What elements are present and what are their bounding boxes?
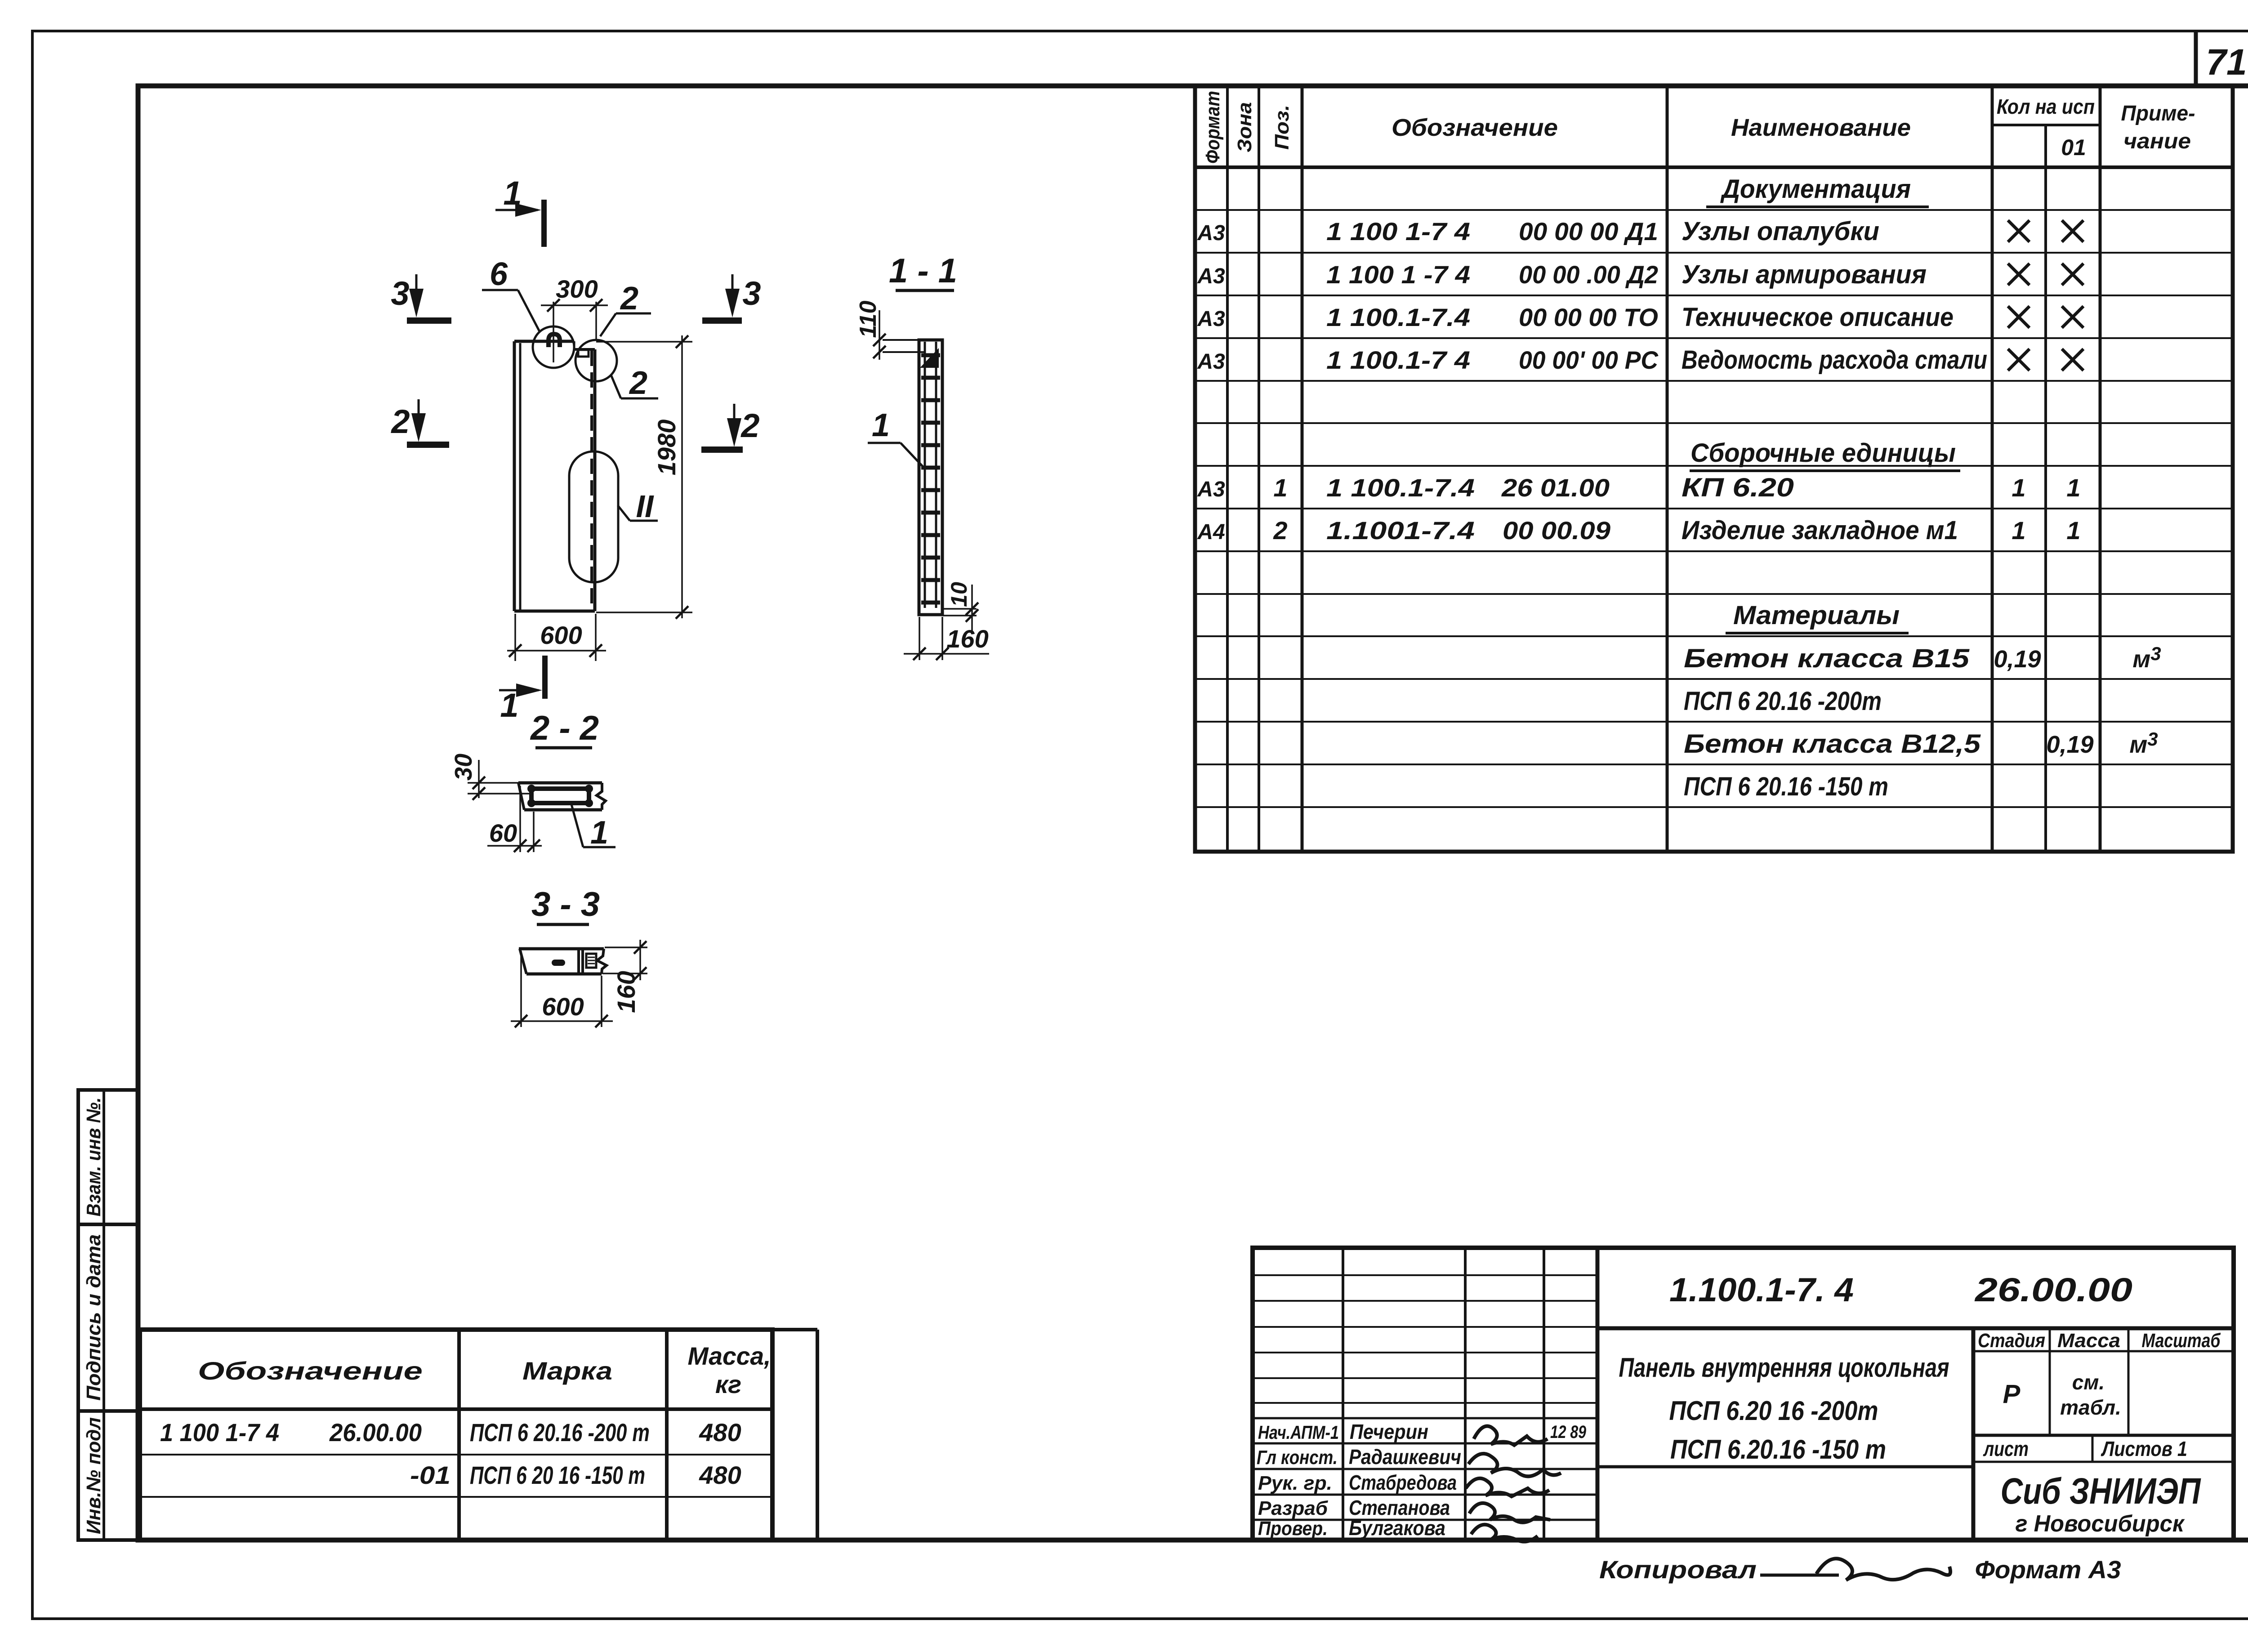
section 2-2: label 1 with leader [571, 804, 616, 851]
section 3-3: slot [552, 960, 565, 966]
svg-text:ПСП 6 20.16 -150 т: ПСП 6 20.16 -150 т [1684, 772, 1888, 801]
svg-text:Документация: Документация [1720, 174, 1911, 204]
svg-text:Приме-: Приме- [2121, 102, 2195, 125]
Формат А3 [1975, 1555, 2121, 1584]
svg-text:1.100.1-7. 4: 1.100.1-7. 4 [1669, 1271, 1854, 1308]
spec row: Узлы армирования [1197, 260, 2083, 289]
svg-text:1 100.1-7 4: 1 100.1-7 4 [1326, 346, 1470, 374]
svg-text:00 00.09: 00 00.09 [1503, 516, 1610, 545]
section 1-1: concrete outline [919, 340, 942, 615]
spec header: Кол на исп [1997, 95, 2095, 118]
svg-text:1: 1 [500, 687, 518, 724]
svg-text:30: 30 [450, 754, 477, 781]
svg-text:3: 3 [391, 275, 409, 312]
svg-text:Изделие закладное м1: Изделие закладное м1 [1682, 516, 1958, 545]
svg-text:1: 1 [872, 407, 890, 443]
section mark 3 left [391, 274, 451, 321]
view title 1-1 [889, 252, 957, 290]
section mark 2 left [390, 399, 449, 445]
svg-text:600: 600 [540, 621, 582, 649]
spec header: Поз. [1271, 105, 1293, 150]
svg-text:1 - 1: 1 - 1 [889, 252, 957, 290]
svg-text:Провер.: Провер. [1258, 1518, 1328, 1540]
svg-text:26 01.00: 26 01.00 [1501, 473, 1610, 502]
svg-text:ПСП 6 20.16 -200т: ПСП 6 20.16 -200т [1684, 687, 1882, 716]
svg-text:1 100 1 -7 4: 1 100 1 -7 4 [1326, 260, 1470, 289]
spec row: Бетон класса В12,5 [1684, 728, 2158, 759]
spec header: Наименование [1731, 114, 1911, 141]
svg-text:2: 2 [390, 403, 410, 440]
svg-text:2: 2 [1273, 516, 1287, 545]
svg-text:600: 600 [542, 992, 584, 1021]
bottom-left table headers [198, 1342, 771, 1398]
svg-text:Нач.АПМ-1: Нач.АПМ-1 [1258, 1422, 1339, 1443]
svg-text:1: 1 [590, 815, 608, 851]
svg-text:Техническое описание: Техническое описание [1682, 303, 1954, 332]
svg-text:Сиб ЗНИИЭП: Сиб ЗНИИЭП [2001, 1471, 2202, 1512]
svg-text:табл.: табл. [2060, 1396, 2121, 1419]
svg-text:Бетон класса В12,5: Бетон класса В12,5 [1684, 729, 1981, 759]
svg-text:-01: -01 [410, 1461, 450, 1489]
signature Стабредова [1466, 1478, 1549, 1496]
section mark 2 right [701, 404, 760, 450]
spec row: Техническое описание [1197, 303, 2083, 332]
main view: lifting loop [549, 302, 560, 362]
title block: Стадия Масса Масштаб [1978, 1330, 2221, 1419]
svg-text:Кол на исп: Кол на исп [1997, 95, 2095, 118]
svg-text:Формат: Формат [1202, 91, 1224, 164]
svg-text:0,19: 0,19 [1994, 646, 2041, 673]
signature Булгакова [1471, 1525, 1538, 1542]
label II with leader [618, 489, 658, 524]
svg-text:Обозначение: Обозначение [198, 1357, 423, 1385]
svg-text:1: 1 [2066, 473, 2080, 502]
bottom-left table row 1 [160, 1418, 741, 1447]
svg-text:6: 6 [490, 256, 508, 292]
svg-text:60: 60 [489, 819, 517, 847]
label 2 bottom with leader [611, 365, 658, 401]
svg-text:Булгакова: Булгакова [1349, 1516, 1445, 1540]
svg-text:Обозначение: Обозначение [1392, 114, 1558, 141]
svg-text:00 00 00 Д1: 00 00 00 Д1 [1519, 217, 1658, 246]
section mark 1 top [495, 174, 544, 247]
svg-text:ПСП 6.20 16 -200т: ПСП 6.20 16 -200т [1669, 1396, 1878, 1426]
svg-text:Формат А3: Формат А3 [1975, 1555, 2121, 1584]
svg-text:Масштаб: Масштаб [2142, 1330, 2221, 1352]
spec row: Узлы опалубки [1197, 217, 2083, 246]
view title 3-3 [531, 885, 600, 924]
svg-text:А3: А3 [1197, 350, 1225, 374]
spec row: КП 6.20 [1197, 473, 2080, 502]
svg-text:ПСП 6.20.16 -150 т: ПСП 6.20.16 -150 т [1670, 1434, 1886, 1464]
svg-text:ПСП 6 20 16 -150 т: ПСП 6 20 16 -150 т [470, 1461, 645, 1489]
svg-text:Зона: Зона [1234, 102, 1256, 152]
section 2-2: reinforcement mesh [527, 785, 593, 807]
svg-text:Бетон класса В15: Бетон класса В15 [1684, 644, 1970, 673]
svg-text:Ведомость расхода стали: Ведомость расхода стали [1682, 345, 1987, 375]
svg-text:3 - 3: 3 - 3 [531, 885, 600, 924]
main view: obround opening II [569, 451, 618, 582]
strip label: Взам. инв № [83, 1098, 105, 1217]
label 6 with leader [482, 256, 540, 332]
svg-text:00 00' 00 РС: 00 00' 00 РС [1519, 346, 1659, 374]
detail circle 2 (top corner) [575, 340, 617, 381]
title block: Лист / Листов [1983, 1437, 2187, 1460]
svg-text:г Новосибирск: г Новосибирск [2016, 1511, 2186, 1537]
section 1-1: dimension 10 [943, 582, 978, 632]
svg-text:00 00 00 ТО: 00 00 00 ТО [1519, 303, 1658, 331]
spec header: Формат [1202, 91, 1224, 164]
section 3-3: dimension 160 [602, 940, 647, 1013]
spec row: Ведомость расхода стали [1197, 345, 2083, 375]
svg-text:II: II [636, 489, 654, 524]
label 2 top with leader [600, 281, 651, 336]
svg-text:Гл конст.: Гл конст. [1257, 1447, 1338, 1469]
svg-text:А4: А4 [1197, 520, 1225, 544]
main view: hidden dashed edge [590, 351, 593, 611]
svg-text:2: 2 [629, 365, 647, 401]
svg-text:Масса,: Масса, [688, 1342, 771, 1370]
svg-text:1.1001-7.4: 1.1001-7.4 [1326, 516, 1475, 545]
svg-text:Взам. инв №.: Взам. инв №. [83, 1098, 105, 1217]
svg-text:300: 300 [556, 275, 598, 303]
svg-text:1: 1 [2066, 516, 2080, 545]
section 3-3: dimension 600 [511, 951, 613, 1027]
svg-text:2 - 2: 2 - 2 [530, 709, 599, 747]
svg-text:10: 10 [946, 582, 972, 607]
detail circle 6 (loop) [533, 326, 574, 368]
svg-text:Материалы: Материалы [1733, 601, 1900, 630]
svg-text:Стадия: Стадия [1978, 1330, 2045, 1352]
svg-text:Узлы опалубки: Узлы опалубки [1682, 217, 1879, 246]
svg-text:0,19: 0,19 [2046, 731, 2093, 758]
svg-text:110: 110 [855, 300, 881, 338]
svg-text:кг: кг [715, 1370, 741, 1398]
svg-text:Масса: Масса [2057, 1330, 2120, 1352]
left vertical stamp strip [78, 1090, 138, 1540]
svg-text:Копировал: Копировал [1599, 1555, 1757, 1584]
spec header: Примечание [2121, 102, 2195, 153]
dimension 600 (main view) [507, 614, 606, 661]
svg-text:2: 2 [740, 407, 759, 444]
strip label: Подпись и дата [83, 1234, 105, 1401]
svg-text:12 89: 12 89 [1550, 1422, 1587, 1442]
svg-text:26.00.00: 26.00.00 [1974, 1271, 2132, 1308]
svg-text:1 100 1-7 4: 1 100 1-7 4 [160, 1418, 279, 1447]
svg-text:Подпись и дата: Подпись и дата [83, 1234, 105, 1401]
svg-text:Печерин: Печерин [1350, 1420, 1428, 1443]
Копировал + signature [1599, 1555, 1950, 1584]
dimension 1980 [596, 335, 692, 619]
svg-text:А3: А3 [1197, 264, 1225, 288]
section 3-3: embedded item М1 [586, 954, 596, 968]
svg-text:лист: лист [1983, 1437, 2029, 1460]
bottom-left marks table frame [140, 1330, 817, 1540]
svg-text:А3: А3 [1197, 307, 1225, 331]
signature Печерин [1474, 1426, 1548, 1445]
section 1-1: reinforcement ladder [920, 342, 940, 608]
strip label: Инв.№ подл [83, 1417, 105, 1534]
svg-text:1 100.1-7.4: 1 100.1-7.4 [1326, 473, 1475, 502]
section mark 1 bottom [499, 656, 545, 724]
svg-text:Листов 1: Листов 1 [2101, 1437, 2187, 1460]
spec row: ПСП 6 20.16-200т [1684, 687, 1882, 716]
svg-text:см.: см. [2072, 1371, 2105, 1394]
spec row: ПСП 6 20.16-150т [1684, 772, 1888, 801]
svg-text:01: 01 [2061, 135, 2086, 160]
title block: organization [2001, 1471, 2202, 1537]
svg-text:1: 1 [2012, 473, 2025, 502]
title block: designation [1669, 1271, 2132, 1308]
section 3-3: concrete outline [519, 949, 607, 974]
spec header: Обозначение [1392, 114, 1558, 141]
svg-text:КП 6.20: КП 6.20 [1682, 473, 1794, 502]
section 2-2: dimension 60 [487, 786, 542, 852]
svg-text:А3: А3 [1197, 478, 1225, 501]
svg-text:Р: Р [2003, 1380, 2021, 1409]
svg-text:26.00.00: 26.00.00 [329, 1418, 422, 1447]
svg-text:Сборочные единицы: Сборочные единицы [1690, 438, 1956, 468]
section 2-2: concrete outline [518, 783, 606, 810]
svg-text:1: 1 [1273, 473, 1287, 502]
svg-text:Инв.№ подл: Инв.№ подл [83, 1417, 105, 1534]
heading Сборочные единицы [1690, 438, 1960, 471]
dimension 300 [541, 275, 608, 340]
svg-text:3: 3 [742, 275, 761, 312]
svg-text:Узлы армирования: Узлы армирования [1682, 260, 1927, 289]
svg-text:1980: 1980 [652, 420, 681, 476]
svg-text:Марка: Марка [522, 1357, 612, 1385]
svg-text:71: 71 [2206, 42, 2247, 83]
svg-text:1 100.1-7.4: 1 100.1-7.4 [1326, 303, 1470, 331]
svg-text:1: 1 [2012, 516, 2025, 545]
specification table frame [1195, 86, 2233, 852]
spec header: Зона [1234, 102, 1256, 152]
main view: panel outline [514, 341, 595, 611]
page number box 71 [2196, 31, 2247, 86]
section 1-1: dimension 110 [855, 300, 925, 360]
bottom-left table row 2 [410, 1461, 741, 1489]
heading Документация [1706, 174, 1929, 207]
svg-text:чание: чание [2123, 129, 2191, 153]
svg-text:Наименование: Наименование [1731, 114, 1911, 141]
spec row: Бетон класса В15 [1684, 643, 2161, 673]
svg-text:Радашкевич: Радашкевич [1349, 1445, 1461, 1469]
svg-text:Поз.: Поз. [1271, 105, 1293, 150]
view title 2-2 [530, 709, 599, 748]
svg-text:Стабредова: Стабредова [1349, 1471, 1457, 1494]
signature Степанова [1469, 1503, 1550, 1523]
svg-text:00 00 .00 Д2: 00 00 .00 Д2 [1519, 260, 1658, 289]
title block frame [1253, 1248, 2234, 1540]
svg-text:2: 2 [620, 281, 638, 317]
svg-text:ПСП 6 20.16 -200 т: ПСП 6 20.16 -200 т [470, 1418, 650, 1447]
section 1-1: label 1 with leader [868, 407, 923, 467]
signature Радашкевич [1468, 1454, 1561, 1477]
title block: personnel rows [1258, 1420, 1587, 1443]
spec row: Изделие закладное м1 [1197, 516, 2080, 545]
svg-text:1 100 1-7 4: 1 100 1-7 4 [1326, 217, 1470, 246]
svg-text:480: 480 [699, 1461, 741, 1489]
svg-text:160: 160 [946, 625, 988, 653]
svg-text:480: 480 [699, 1418, 741, 1447]
section 1-1: dimension 160 [904, 617, 989, 660]
section mark 3 right [702, 274, 761, 321]
heading Материалы [1726, 601, 1909, 633]
svg-text:Рук. гр.: Рук. гр. [1258, 1472, 1332, 1494]
svg-text:Панель внутренняя цокольная: Панель внутренняя цокольная [1619, 1353, 1949, 1383]
svg-text:Разраб: Разраб [1258, 1497, 1329, 1519]
svg-text:А3: А3 [1197, 221, 1225, 245]
section 2-2: dimension 30 [450, 754, 531, 800]
main view: embedded plate M1 at top right [578, 350, 589, 357]
spec header: 01 [2061, 135, 2086, 160]
title block: product name [1619, 1353, 1949, 1464]
